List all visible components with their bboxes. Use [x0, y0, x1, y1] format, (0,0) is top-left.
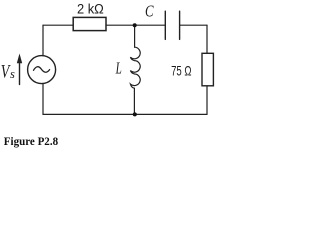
svg-text:Figure P2.8: Figure P2.8 [4, 134, 58, 148]
svg-text:s: s [10, 67, 15, 81]
inductor L coil [130, 47, 140, 88]
inductor L stem top [134, 25, 136, 47]
wire top-left horizontal [43, 24, 73, 26]
node dot bottom [133, 112, 137, 116]
wire left vertical bottom [42, 84, 44, 115]
svg-text:2 kΩ: 2 kΩ [77, 1, 104, 16]
wire capacitor to top-right corner [180, 24, 207, 26]
wire top middle (resistor to node) [106, 24, 135, 26]
resistor R 2k box [73, 17, 106, 30]
arrow for Vs (head) [17, 54, 22, 64]
wire node to capacitor [135, 24, 166, 26]
wire right vertical bottom [206, 86, 208, 115]
capacitor C plates [164, 11, 166, 39]
svg-text:75 Ω: 75 Ω [171, 63, 191, 78]
node dot top [133, 23, 137, 27]
source sine wave [34, 67, 50, 73]
wire bottom horizontal [43, 113, 207, 115]
svg-text:L: L [115, 59, 122, 78]
wire right vertical top [206, 25, 208, 53]
source Vs circle [28, 56, 56, 84]
inductor L stem bottom [133, 88, 135, 114]
resistor 75ohm box [202, 53, 213, 86]
arrow for Vs (shaft) [19, 57, 21, 85]
wire left vertical top [42, 25, 44, 56]
svg-text:C: C [145, 1, 154, 20]
